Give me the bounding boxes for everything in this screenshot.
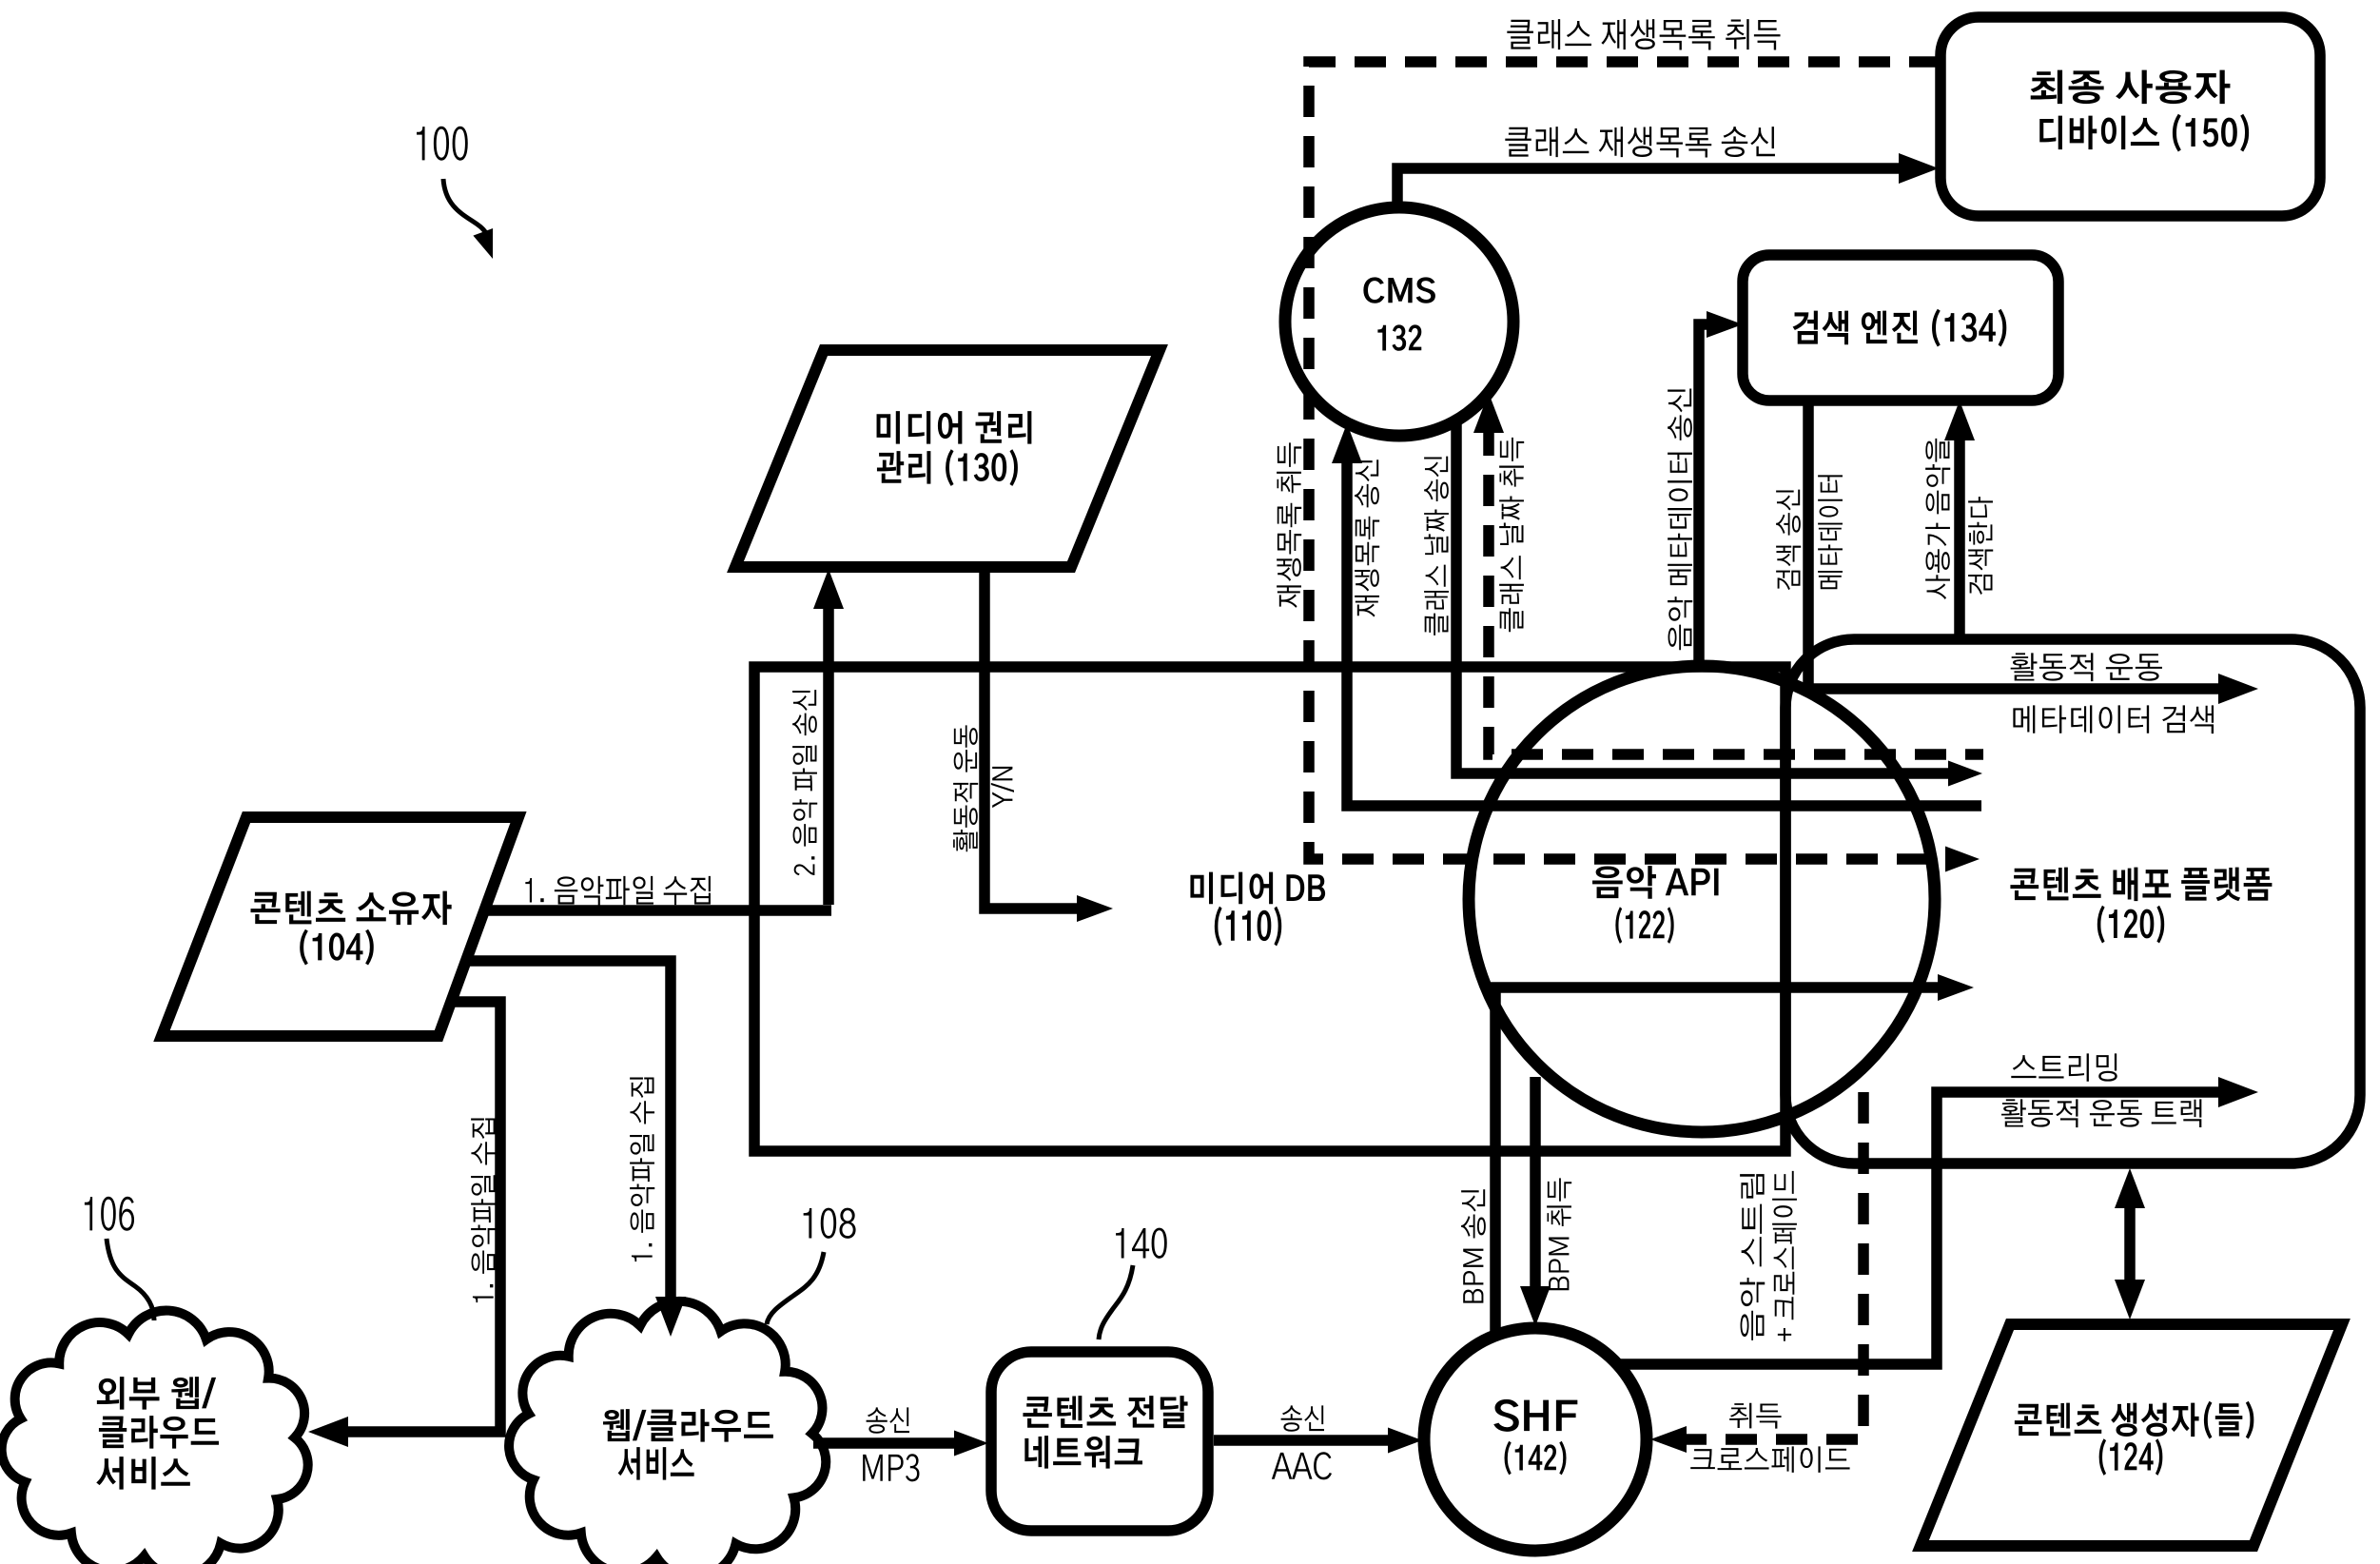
wire: class playlist send (CMS->150) [1397, 168, 1904, 207]
wire: music metadata send (mediaDB->134) [1699, 324, 1708, 671]
node label SHF [1493, 1399, 1577, 1432]
node label 122 line2 [1615, 907, 1673, 944]
node label CMS [1363, 277, 1435, 303]
label: streaming [2011, 1053, 2117, 1081]
rot label: user music [1925, 439, 1950, 599]
node label 130 line1 [877, 411, 1032, 443]
node label 110 line1 [1190, 872, 1325, 905]
wire: dashed class-playlist acquire (150->CMS col) [1309, 62, 1945, 859]
node: CMS 132 circle [1285, 207, 1513, 436]
wire: dashed acquire crossfade (platform->SHF) [1685, 1092, 1863, 1439]
node: music API (122) circle [1469, 666, 1935, 1132]
node: media rights mgmt (130) parallelogram [735, 350, 1160, 567]
ref number 140 [1116, 1228, 1167, 1259]
node label 104 line1 [251, 891, 452, 925]
rot label: 1. collect (108) [630, 1077, 654, 1261]
rot label: music metadata send [1668, 388, 1692, 650]
node label 124 line2 [2099, 1438, 2163, 1476]
wire: class date send (CMS->platform) [1456, 420, 1948, 773]
wire: send MP3 (cloud108->140) [813, 1437, 954, 1449]
rot label: 2. music file send [792, 690, 817, 875]
label: active workout [2011, 653, 2162, 681]
cloud106 label line3 [96, 1456, 190, 1489]
leader squiggle for 140 [1099, 1265, 1133, 1339]
cloud106 label line1 [97, 1377, 216, 1410]
node label 120 line2 [2097, 906, 2164, 944]
node: web/cloud services cloud 108 [509, 1301, 826, 1564]
node: media DB (110) rectangle [754, 667, 1785, 1151]
label: send (MP3) [867, 1407, 909, 1433]
label: metadata search [2013, 705, 2214, 733]
rot label: search send [1776, 490, 1801, 590]
label: acquire [1729, 1403, 1781, 1429]
wire: double arrow platform<->124 [2124, 1201, 2136, 1287]
node label 142 [1505, 1441, 1567, 1476]
label: class playlist acquire [1507, 19, 1780, 49]
cloud106 label line2 [99, 1416, 219, 1449]
wire: BPM acquire (API->SHF) [1530, 1077, 1541, 1292]
node label 150 line1 [2031, 70, 2231, 104]
node label 140 line1 [1023, 1396, 1187, 1428]
wire: BPM send (SHF->platform) [1495, 987, 1940, 1332]
node label 130 line2 [877, 449, 1018, 486]
node label 124 line1 [2015, 1401, 2253, 1439]
node: search engine (134) [1743, 255, 2058, 401]
node: SHF (142) circle [1424, 1328, 1647, 1551]
node: content creator(s) (124) parallelogram [1921, 1324, 2342, 1546]
wire: dashed class date acquire (->CMS) [1489, 424, 1983, 754]
node: content delivery network (140) [991, 1352, 1208, 1531]
rot label: playlist send [1355, 459, 1379, 616]
wire: user searches music (platform->134) [1954, 433, 1965, 639]
rot label: playlist acquire [1277, 442, 1301, 608]
label: active workout track [2001, 1099, 2201, 1127]
node label 104 line2 [300, 929, 374, 966]
rot label: + crossfade [1772, 1171, 1797, 1341]
label: MP3 [863, 1454, 919, 1481]
node: content distribution platform (120) [1785, 639, 2360, 1163]
wire: 2. music file send (->130) [823, 601, 834, 905]
rot label: metadata [1818, 475, 1843, 589]
ref number 100 [417, 127, 468, 161]
leader squiggle for 106 [107, 1239, 154, 1320]
rot label: searches [1968, 497, 1993, 595]
label: send (AAC) [1281, 1405, 1324, 1431]
node: content owner (104) parallelogram [162, 817, 518, 1036]
node label 120 line1 [2010, 868, 2272, 901]
wire: streaming active workout track (SHF->platform) [1615, 1092, 2224, 1364]
rot label: 1. collect (106) [471, 1118, 496, 1302]
cloud108 label line2 [618, 1447, 694, 1479]
rot label: BPM send [1461, 1189, 1486, 1302]
rot label: class date acquire [1499, 438, 1524, 632]
wire: send AAC (140->SHF) [1214, 1435, 1388, 1446]
rot label: music stream [1740, 1174, 1765, 1340]
wire: playlist send (->CMS up arrow, to platform) [1347, 455, 1981, 806]
wire: active workout Y/N (130->mediaDB) [985, 568, 1079, 909]
node label 110 line2 [1215, 907, 1281, 947]
node label 150 line2 [2039, 114, 2249, 152]
node: end user device (150) [1941, 17, 2320, 216]
leader squiggle for 108 [767, 1252, 824, 1324]
leader squiggle for 100 [443, 179, 489, 245]
rot label: active workout y/n l1 [953, 725, 978, 851]
node label 122 line1 [1592, 866, 1719, 899]
label: 1. collect music files [525, 876, 711, 906]
wire: 1. music file collect (104->cloud106) [342, 1002, 500, 1432]
rot label: Y/N [991, 767, 1014, 808]
cloud108 label line1 [603, 1409, 773, 1442]
node label 132 [1377, 324, 1421, 350]
wire: 1. music file collect (104->) [484, 905, 831, 916]
ref number 108 [804, 1208, 856, 1239]
rot label: class date send [1424, 457, 1449, 635]
node label 140 line2 [1024, 1436, 1142, 1468]
node: external web/cloud services cloud 106 [2, 1311, 308, 1564]
rot label: BPM acquire [1547, 1178, 1571, 1290]
node label 134 [1793, 309, 2007, 347]
wire: search send / metadata (134->platform) [1808, 401, 2224, 689]
label: class playlist send [1505, 127, 1775, 157]
wire: 1. music file collect (104->cloud108) [466, 961, 671, 1303]
ref number 106 [85, 1197, 134, 1231]
label: AAC [1272, 1452, 1332, 1479]
label: crossfade [1690, 1446, 1849, 1473]
